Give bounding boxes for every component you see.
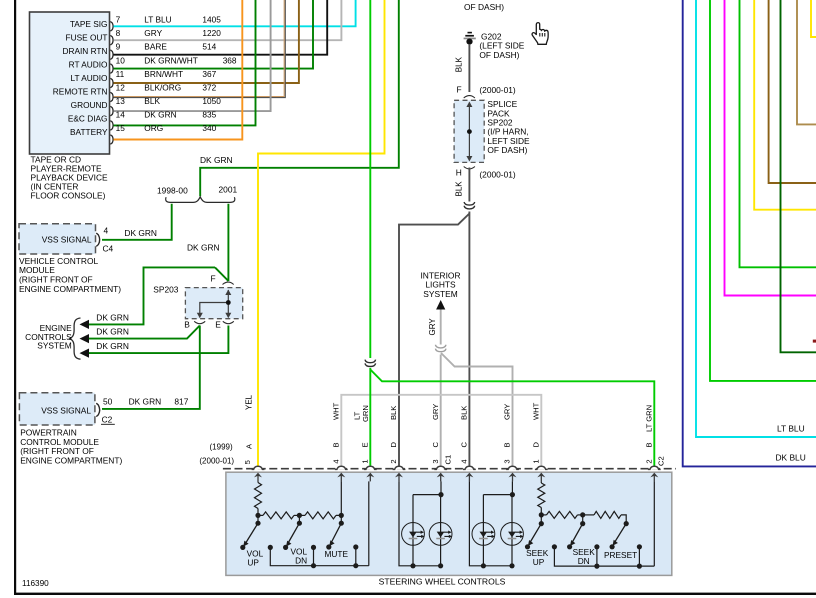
svg-text:ENGINE COMPARTMENT): ENGINE COMPARTMENT) [20,456,122,466]
svg-text:DK GRN: DK GRN [200,155,233,165]
svg-text:WHT: WHT [531,402,540,420]
svg-text:2: 2 [389,459,398,463]
svg-text:UP: UP [247,558,259,568]
wire WHT staple pins 4B-1D [341,395,541,466]
right group contact bus [552,544,557,549]
svg-text:DK GRN/WHT: DK GRN/WHT [144,55,197,65]
pin 9 connector symbol [110,50,113,60]
svg-text:ORG: ORG [144,123,163,133]
harness break arcs BLK [464,202,475,209]
svg-text:7: 7 [116,15,121,25]
svg-text:OF DASH): OF DASH) [464,2,504,12]
harness break arcs GRY [435,345,446,352]
interior lights arrow up [436,300,445,310]
wire DK GRN branch to engine controls arrow 1 [88,267,215,324]
svg-text:C2: C2 [657,456,666,466]
wire from E to engine controls arrow 3 [88,326,228,354]
wire GRY branch to steering pin 3B [441,353,513,466]
svg-text:DN: DN [295,556,307,566]
pin 12 connector symbol [110,92,113,102]
cropped label fragment right edge [813,340,816,343]
svg-text:BLK/ORG: BLK/ORG [144,82,181,92]
svg-text:BRN/WHT: BRN/WHT [144,69,183,79]
wire TAN [797,0,816,124]
wire YEL (radio) [754,0,816,210]
svg-text:3: 3 [503,459,512,463]
PCM VSS SIGNAL box [19,393,95,425]
svg-text:E: E [361,442,370,447]
svg-text:TAPE SIG: TAPE SIG [70,19,108,29]
svg-text:FLOOR CONSOLE): FLOOR CONSOLE) [31,190,106,200]
model-year bracket [166,197,235,203]
B pin arc [194,321,205,323]
svg-text:C1: C1 [444,455,453,465]
SP202 junction dot [467,129,472,134]
wire DK GRN riser from top edge [200,0,399,196]
SP203 internal bus [200,290,229,317]
pin 7 connector symbol [110,22,113,32]
wire GRY 1220 run + riser [114,0,342,40]
svg-text:2001: 2001 [219,185,238,195]
wire DK GRN 1998-00 branch to VCM [102,204,172,240]
svg-text:13: 13 [116,96,126,106]
wire LT BLU 1405 run + riser [114,0,356,26]
svg-text:1998-00: 1998-00 [157,186,188,196]
svg-text:12: 12 [116,82,126,92]
svg-text:340: 340 [202,123,216,133]
svg-text:1050: 1050 [202,96,221,106]
svg-text:GRN: GRN [361,405,370,422]
svg-text:SYSTEM: SYSTEM [423,289,457,299]
svg-text:11: 11 [116,69,125,79]
page border left [14,0,16,595]
svg-text:C: C [460,442,469,448]
svg-text:REMOTE RTN: REMOTE RTN [53,87,108,97]
svg-text:C: C [431,442,440,448]
svg-text:UP: UP [533,557,545,567]
wire BRN/WHT 367 run + riser [114,0,299,83]
wire DK BLU [683,0,816,466]
mouse hand cursor [532,23,548,45]
ground G202 symbol [468,32,472,34]
svg-text:14: 14 [116,110,126,120]
harness break arcs LT GRN [365,360,376,367]
pin 8 connector symbol [110,35,113,45]
wire BLK G202 down to F [468,44,470,92]
svg-text:B: B [184,320,190,330]
svg-text:DK BLU: DK BLU [776,452,806,462]
svg-text:SYSTEM: SYSTEM [37,341,71,351]
svg-text:BLK: BLK [455,181,464,197]
svg-text:E: E [215,320,221,330]
svg-text:PRESET: PRESET [604,550,637,560]
svg-text:9: 9 [116,42,121,52]
svg-text:GROUND: GROUND [71,100,108,110]
svg-text:LT AUDIO: LT AUDIO [70,73,108,83]
svg-text:YEL: YEL [245,394,254,410]
wire DK GRN 835 run + riser [114,0,256,125]
H pin arc [464,167,475,169]
svg-text:D: D [531,442,540,448]
connector arrows into box [257,474,259,481]
svg-text:10: 10 [116,55,126,65]
diagonal into F junction [215,267,228,281]
svg-text:H: H [456,167,462,177]
svg-text:(2000-01): (2000-01) [479,85,516,95]
pin 14 connector symbol [110,121,113,131]
VOL resistor ladder [257,481,259,482]
svg-text:8: 8 [116,28,121,38]
svg-text:RT AUDIO: RT AUDIO [69,60,108,70]
wire ORG 340 run + riser [114,0,243,140]
wire LT GRN (radio) [710,0,816,381]
svg-text:DK GRN: DK GRN [124,228,157,238]
svg-text:DK GRN: DK GRN [96,327,129,337]
F pin arc [223,282,234,284]
svg-text:DK GRN: DK GRN [144,110,176,120]
wire BARE 514 run + riser [114,0,328,55]
svg-text:1405: 1405 [202,15,221,25]
svg-text:3: 3 [431,459,440,463]
pin 13 connector symbol [110,106,113,116]
svg-text:BLK: BLK [460,406,469,420]
SEEK UP switch [530,524,541,542]
wire GRY from interior lights [440,310,442,345]
svg-text:BLK: BLK [389,406,398,420]
svg-text:BATTERY: BATTERY [70,127,108,137]
svg-text:(1999): (1999) [210,442,233,451]
engine controls brace [70,318,81,359]
svg-text:GRY: GRY [503,404,512,420]
svg-text:(2000-01): (2000-01) [479,169,516,179]
svg-text:372: 372 [202,82,216,92]
svg-text:2: 2 [645,459,654,463]
svg-text:VSS SIGNAL: VSS SIGNAL [42,234,92,244]
wire DK GRN/WHT 368 run + riser [114,0,314,69]
svg-text:C2: C2 [102,415,113,425]
svg-text:GRY: GRY [431,404,440,420]
svg-text:OF DASH): OF DASH) [479,50,519,60]
pin 11 connector symbol [110,78,113,88]
svg-text:514: 514 [202,42,216,52]
svg-text:DK GRN: DK GRN [96,341,129,351]
svg-text:E&C DIAG: E&C DIAG [68,114,108,124]
svg-text:817: 817 [174,397,188,407]
svg-text:LT BLU: LT BLU [777,424,805,434]
svg-text:4: 4 [332,459,341,463]
page border bottom [14,593,816,595]
wire LT GRN from top to pin 1E [369,0,371,358]
svg-text:F: F [457,84,462,94]
steering wheel controls box [226,472,672,575]
svg-text:FUSE OUT: FUSE OUT [66,33,108,43]
LED group 2 (pins 4C,3B) [469,481,512,565]
svg-text:SP203: SP203 [153,284,178,294]
splice pack SP203 box [185,288,242,319]
svg-text:WHT: WHT [332,402,341,420]
svg-text:B: B [332,442,341,447]
svg-text:LT BLU: LT BLU [144,15,171,25]
svg-text:DN: DN [578,556,590,566]
svg-text:LT GRN: LT GRN [645,405,654,432]
svg-text:C4: C4 [103,244,114,254]
wire DK GRN (radio) [781,0,816,352]
svg-text:GRY: GRY [428,318,437,336]
pin 15 connector symbol [110,135,113,145]
VOL UP switch [246,523,258,542]
wire BLK 1050 run + riser [114,0,271,111]
svg-text:DK GRN: DK GRN [187,243,220,253]
svg-text:D: D [389,442,398,448]
SEEK resistor ladder [540,481,542,483]
wire BLK branch to steering pin 2D [399,214,469,467]
wire DK GRN 2001 branch down to F [227,204,229,281]
svg-text:VSS SIGNAL: VSS SIGNAL [41,406,91,416]
tape or CD player box [30,12,110,154]
svg-text:1: 1 [361,459,370,463]
svg-text:DK GRN: DK GRN [96,312,129,322]
LED group 1 (pins 2D,3C) [399,481,441,565]
svg-text:5: 5 [243,460,252,464]
PRESET switch [615,524,626,542]
PCM pin symbol [96,403,99,416]
wire YEL 2 [811,0,816,37]
svg-text:BLK: BLK [144,96,160,106]
svg-text:367: 367 [202,69,216,79]
svg-text:GRY: GRY [144,28,162,38]
pin 10 connector symbol [110,64,113,74]
wire LT BLU [696,0,816,437]
wire BRN [769,0,816,183]
svg-text:BLK: BLK [455,56,464,72]
MUTE switch [331,523,341,542]
svg-text:1220: 1220 [202,28,221,38]
splice pack SP202 box [454,100,484,162]
svg-text:ENGINE COMPARTMENT): ENGINE COMPARTMENT) [19,284,121,294]
wire from B down to PCM 817 [102,326,200,409]
svg-text:50: 50 [103,397,113,407]
VOL DN switch [288,523,299,542]
wire LT GRN branch to pin 2B C2 [370,370,654,467]
wire PNK [725,0,816,296]
svg-text:4: 4 [104,226,109,236]
wire GRY to steering pin 3C [440,355,442,467]
svg-text:4: 4 [460,459,469,463]
left group contact bus [268,545,273,550]
wire GRN [740,0,816,267]
SEEK DN switch [572,524,582,542]
SP203 junction dot [226,300,231,305]
svg-text:MUTE: MUTE [325,549,349,559]
F pin arc [464,96,475,98]
svg-text:BARE: BARE [144,42,167,52]
wire BLK/ORG 372 run + riser [114,0,285,97]
svg-text:(2000-01): (2000-01) [199,457,234,466]
wire BLK below SP202 [468,168,470,202]
connector pin bumps [252,466,265,469]
svg-text:B: B [645,442,654,447]
svg-text:DK GRN: DK GRN [129,397,162,407]
svg-text:15: 15 [116,123,126,133]
svg-text:1: 1 [531,459,540,463]
svg-text:F: F [211,274,216,284]
svg-text:B: B [503,442,512,447]
engine controls arrows [80,320,90,329]
wire YEL from top to steering pin A/5 [258,0,385,466]
svg-text:DRAIN RTN: DRAIN RTN [62,46,107,56]
VCM VSS SIGNAL box [19,224,96,254]
wire from B to engine controls arrow 2 [88,326,200,339]
svg-text:835: 835 [202,110,216,120]
svg-text:OF DASH): OF DASH) [487,145,527,155]
VCM pin symbol [96,233,99,246]
steering connector dashed line [223,468,676,470]
SP202 internal bus with arrows [468,103,470,161]
svg-text:116390: 116390 [22,579,49,588]
svg-text:368: 368 [223,55,237,65]
E pin arc [223,321,234,323]
svg-text:STEERING WHEEL CONTROLS: STEERING WHEEL CONTROLS [379,577,506,587]
wire BLK to steering pin 4C [468,212,470,467]
